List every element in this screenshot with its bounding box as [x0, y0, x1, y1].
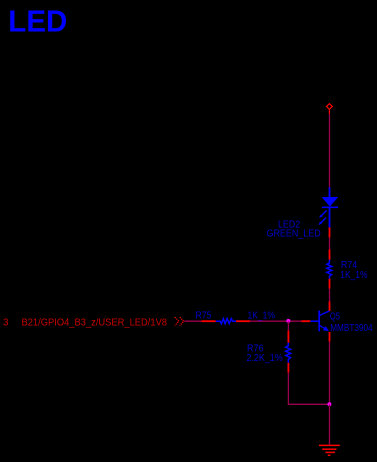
- svg-text:LED: LED: [8, 3, 67, 38]
- off-page connector chevrons: [175, 317, 184, 325]
- resistor R75: [202, 319, 250, 324]
- svg-text:GREEN_LED: GREEN_LED: [267, 229, 321, 240]
- resistor R76: [286, 331, 291, 373]
- wire connector to R75: [184, 320, 201, 322]
- svg-text:1K_1%: 1K_1%: [248, 311, 276, 322]
- wire node to ground: [329, 404, 331, 445]
- junction node base: [286, 319, 290, 323]
- svg-text:MMBT3904: MMBT3904: [330, 323, 373, 334]
- wire LED to R74: [329, 238, 331, 250]
- wire Q5 emitter down: [329, 342, 331, 405]
- svg-text:1K_1%: 1K_1%: [340, 270, 367, 281]
- svg-text:2.2K_1%: 2.2K_1%: [247, 353, 283, 364]
- resistor R74: [327, 250, 332, 289]
- ground symbol: [319, 445, 340, 455]
- svg-text:Q5: Q5: [330, 312, 340, 323]
- wire VCC to LED: [329, 114, 331, 188]
- svg-text:R75: R75: [196, 311, 212, 322]
- junction node emitter-ground: [327, 402, 331, 406]
- wire R75 to node: [250, 320, 302, 322]
- svg-text:B21/GPIO4_B3_z/USER_LED/1V8: B21/GPIO4_B3_z/USER_LED/1V8: [22, 317, 168, 328]
- LED LED2: [319, 187, 339, 227]
- wire node down to R76: [287, 321, 289, 331]
- wire R74 to Q5 collector: [329, 289, 331, 302]
- wire R76 to bottom rail: [288, 373, 329, 405]
- power symbol VCC: [327, 104, 333, 114]
- pin Q5 base: [302, 320, 311, 322]
- svg-text:3: 3: [3, 317, 9, 328]
- pin LED2 cathode: [329, 228, 331, 238]
- transistor Q5: [310, 302, 329, 342]
